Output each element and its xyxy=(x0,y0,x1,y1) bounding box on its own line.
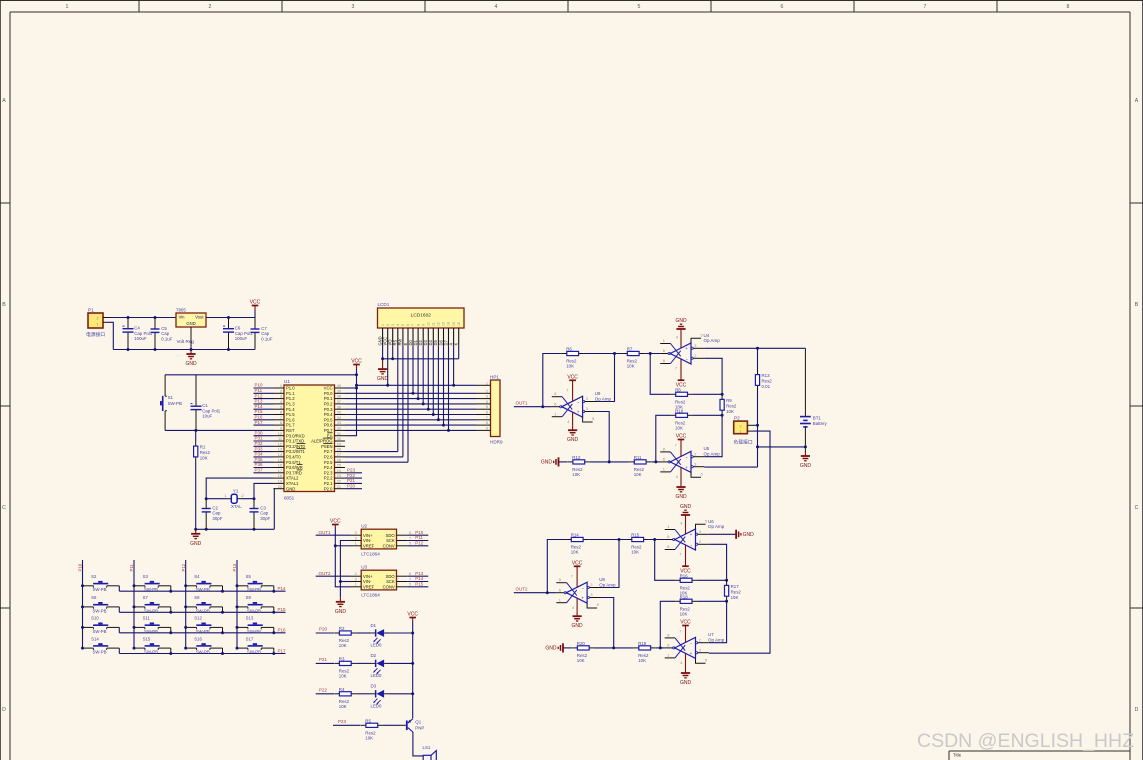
svg-text:Op Amp: Op Amp xyxy=(595,396,612,401)
net label P14 xyxy=(278,586,287,591)
junction xyxy=(756,445,759,448)
svg-text:10K: 10K xyxy=(572,472,580,477)
svg-text:5: 5 xyxy=(701,471,703,476)
svg-text:+: + xyxy=(690,651,693,656)
svg-text:SW-PB: SW-PB xyxy=(144,629,158,634)
svg-text:VCC: VCC xyxy=(250,300,261,306)
svg-text:SW-PB: SW-PB xyxy=(144,587,158,592)
wire xyxy=(383,724,400,726)
wire LCD pin 8 xyxy=(417,345,419,398)
wire xyxy=(600,598,613,648)
wire RS xyxy=(345,451,398,453)
net label P22 xyxy=(347,473,356,478)
svg-text:38: 38 xyxy=(337,395,341,399)
svg-text:LCD1602: LCD1602 xyxy=(411,313,432,319)
ground xyxy=(736,530,754,539)
wire VIN- xyxy=(340,541,350,598)
svg-text:8: 8 xyxy=(667,544,669,549)
svg-text:10K: 10K xyxy=(726,409,734,414)
svg-text:5: 5 xyxy=(597,602,599,607)
svg-text:R1: R1 xyxy=(200,445,206,450)
wire xyxy=(514,406,552,408)
svg-text:P33: P33 xyxy=(255,446,264,451)
svg-text:10uF: 10uF xyxy=(202,414,212,419)
svg-text:SW-PB: SW-PB xyxy=(144,608,158,613)
wire VCC row xyxy=(357,384,477,386)
svg-text:SW-PB: SW-PB xyxy=(93,608,107,613)
ground xyxy=(335,597,347,615)
svg-text:S3: S3 xyxy=(143,574,149,579)
svg-text:8: 8 xyxy=(280,421,282,425)
wire LCD pin 14 xyxy=(448,345,450,430)
wire net P30 xyxy=(254,435,274,437)
svg-text:6: 6 xyxy=(781,4,784,10)
svg-text:S9: S9 xyxy=(246,595,252,600)
power port VCC xyxy=(250,300,261,318)
wire xyxy=(649,539,665,541)
svg-text:P1.1: P1.1 xyxy=(286,391,295,396)
svg-text:P11: P11 xyxy=(129,564,134,572)
svg-text:BT1: BT1 xyxy=(813,416,822,421)
svg-text:SW-PB: SW-PB xyxy=(93,587,107,592)
svg-text:3: 3 xyxy=(486,395,488,399)
wire xyxy=(753,424,758,426)
svg-text:S11: S11 xyxy=(143,616,151,621)
svg-text:-: - xyxy=(582,586,584,592)
svg-text:OUT2: OUT2 xyxy=(319,571,331,576)
junction xyxy=(334,544,337,547)
svg-text:13: 13 xyxy=(442,322,446,326)
wire LCD pin 16 xyxy=(458,345,460,359)
svg-text:P22: P22 xyxy=(347,473,356,478)
svg-text:负载接口: 负载接口 xyxy=(734,439,753,446)
svg-text:-: - xyxy=(686,455,688,461)
svg-text:1: 1 xyxy=(667,653,669,658)
svg-text:7: 7 xyxy=(411,324,415,326)
svg-text:-: - xyxy=(690,542,692,548)
svg-text:LED0: LED0 xyxy=(371,643,383,648)
svg-text:23: 23 xyxy=(337,474,341,478)
svg-text:3: 3 xyxy=(694,343,696,348)
svg-text:VCC: VCC xyxy=(407,612,418,618)
wire xyxy=(709,431,770,653)
resistor R1 xyxy=(194,430,211,529)
MCU U1 8051 xyxy=(274,379,346,500)
svg-text:Op Amp: Op Amp xyxy=(704,452,721,457)
svg-text:5: 5 xyxy=(280,405,282,409)
svg-text:1: 1 xyxy=(280,384,282,388)
svg-text:P3.4/T0: P3.4/T0 xyxy=(286,455,301,460)
svg-text:P36: P36 xyxy=(255,462,264,467)
svg-text:SW-PB: SW-PB xyxy=(196,608,210,613)
svg-text:HDR9: HDR9 xyxy=(490,439,503,444)
junction xyxy=(659,646,662,649)
wire xyxy=(196,528,275,530)
junction xyxy=(546,591,549,594)
svg-text:34: 34 xyxy=(337,416,341,420)
DAC U3 LTC1864 xyxy=(351,565,429,598)
wire xyxy=(316,632,334,634)
resistor R20 xyxy=(572,641,594,663)
svg-text:10K: 10K xyxy=(627,364,635,369)
svg-text:30: 30 xyxy=(337,437,341,441)
svg-text:P17: P17 xyxy=(278,648,287,653)
wire P0.7 xyxy=(345,429,476,431)
wire LCD pin 2 xyxy=(387,345,389,385)
wire LCD pin 9 xyxy=(422,345,424,404)
svg-text:6: 6 xyxy=(554,401,556,406)
svg-text:10K: 10K xyxy=(339,674,347,679)
svg-text:P2.1: P2.1 xyxy=(324,481,333,486)
wire xyxy=(206,317,255,319)
svg-text:EA: EA xyxy=(327,433,333,438)
svg-text:B: B xyxy=(1135,302,1139,308)
capacitor C4 xyxy=(123,318,153,350)
svg-text:P10: P10 xyxy=(78,563,83,571)
wire xyxy=(656,647,665,649)
junction xyxy=(721,414,724,417)
net label P21 xyxy=(347,478,356,483)
svg-text:6: 6 xyxy=(667,534,669,539)
wire LCD pin 1 xyxy=(382,345,384,359)
svg-text:Vout: Vout xyxy=(195,315,204,320)
svg-text:0.1uF: 0.1uF xyxy=(161,336,173,341)
svg-text:R12: R12 xyxy=(572,455,581,460)
svg-text:SW-PB: SW-PB xyxy=(93,629,107,634)
wire xyxy=(588,539,627,541)
wire RW xyxy=(345,456,403,458)
svg-text:R11: R11 xyxy=(634,455,642,460)
op-amp U5 xyxy=(660,443,720,479)
resistor R5 xyxy=(361,718,383,740)
svg-text:LED0: LED0 xyxy=(371,703,383,708)
switch S17 xyxy=(236,636,276,655)
svg-text:S1: S1 xyxy=(168,395,174,400)
svg-text:5: 5 xyxy=(701,332,703,337)
svg-text:Res2: Res2 xyxy=(726,403,737,408)
svg-text:R8: R8 xyxy=(675,387,681,392)
svg-text:2: 2 xyxy=(355,572,357,576)
svg-text:GND: GND xyxy=(377,376,389,382)
wire xyxy=(563,647,572,649)
svg-text:VCC: VCC xyxy=(324,386,333,391)
wire xyxy=(584,353,623,355)
ground xyxy=(572,598,584,629)
ground xyxy=(675,318,687,348)
svg-text:10: 10 xyxy=(427,322,431,326)
svg-text:GND: GND xyxy=(680,504,692,510)
junction xyxy=(417,397,420,400)
svg-text:SW-PB: SW-PB xyxy=(247,629,261,634)
wire net P13 xyxy=(254,403,274,405)
svg-text:2: 2 xyxy=(386,324,390,326)
junction xyxy=(386,384,455,387)
net label P30 xyxy=(255,430,264,435)
svg-text:P20: P20 xyxy=(319,627,328,632)
junction xyxy=(721,393,724,396)
junction xyxy=(194,429,197,432)
wire xyxy=(655,540,675,581)
resistor R13 xyxy=(755,348,772,425)
connector P1 xyxy=(88,307,110,328)
svg-text:5: 5 xyxy=(592,416,594,421)
svg-text:S12: S12 xyxy=(194,616,202,621)
svg-text:R7: R7 xyxy=(627,347,633,352)
svg-text:LED0: LED0 xyxy=(371,673,383,678)
svg-text:1: 1 xyxy=(355,542,357,546)
svg-text:100uF: 100uF xyxy=(235,336,248,341)
svg-text:GND: GND xyxy=(675,494,687,500)
net label P12 xyxy=(181,563,186,571)
svg-text:P22: P22 xyxy=(319,687,328,692)
wire xyxy=(585,354,615,402)
LED D1 xyxy=(371,623,390,648)
wire net P23 xyxy=(345,472,362,474)
net label P36 xyxy=(255,462,264,467)
wire net P33 xyxy=(254,451,274,453)
op-amp U7 xyxy=(665,629,725,665)
net label P34 xyxy=(255,452,264,457)
svg-text:S6: S6 xyxy=(91,595,97,600)
wire xyxy=(356,662,371,664)
net label P32 xyxy=(255,441,264,446)
svg-text:6: 6 xyxy=(663,457,665,462)
svg-text:CSDN @ENGLISH_HHZ: CSDN @ENGLISH_HHZ xyxy=(917,730,1134,752)
svg-text:GND: GND xyxy=(743,532,755,538)
wire keypad column P10 xyxy=(82,560,84,648)
svg-text:9: 9 xyxy=(421,324,425,326)
svg-text:8051: 8051 xyxy=(284,496,295,501)
op-amp U9 xyxy=(552,388,612,424)
svg-text:32: 32 xyxy=(337,427,341,431)
svg-text:100uF: 100uF xyxy=(134,336,147,341)
svg-text:0.01: 0.01 xyxy=(762,384,771,389)
wire net P20 xyxy=(345,488,362,490)
junction xyxy=(437,418,440,421)
junction xyxy=(804,445,807,448)
svg-text:7: 7 xyxy=(280,416,282,420)
connector P2 xyxy=(734,416,753,434)
svg-text:3: 3 xyxy=(355,577,357,581)
svg-text:3: 3 xyxy=(699,529,701,534)
svg-text:7: 7 xyxy=(409,536,411,540)
svg-text:15: 15 xyxy=(452,322,456,326)
svg-text:P1.6: P1.6 xyxy=(286,417,295,422)
ground xyxy=(377,359,389,382)
wire xyxy=(316,693,334,695)
svg-text:P35: P35 xyxy=(255,457,264,462)
svg-text:7: 7 xyxy=(571,574,573,579)
svg-text:P2.3: P2.3 xyxy=(324,470,333,475)
net label P35 xyxy=(255,457,264,462)
switch S12 xyxy=(184,616,224,635)
junction xyxy=(432,413,435,416)
svg-text:SDO: SDO xyxy=(386,574,396,579)
svg-text:P16: P16 xyxy=(255,415,264,420)
wire xyxy=(590,461,629,463)
svg-text:GND: GND xyxy=(680,680,692,686)
svg-text:R3: R3 xyxy=(339,656,345,661)
svg-text:VCC: VCC xyxy=(676,434,687,440)
wire xyxy=(704,347,805,349)
svg-text:P10: P10 xyxy=(255,383,264,388)
net label P17 xyxy=(255,420,264,425)
svg-text:S5: S5 xyxy=(246,574,252,579)
svg-text:3: 3 xyxy=(694,461,696,466)
svg-text:2: 2 xyxy=(209,4,212,10)
svg-text:R14: R14 xyxy=(571,533,580,538)
wire P0.2 xyxy=(345,403,476,405)
svg-text:2: 2 xyxy=(586,396,588,401)
svg-text:VCC: VCC xyxy=(680,620,691,626)
svg-text:11: 11 xyxy=(432,322,436,326)
junction xyxy=(411,692,414,695)
svg-text:6: 6 xyxy=(663,348,665,353)
junction xyxy=(541,405,544,408)
wire net P32 xyxy=(254,445,274,447)
svg-text:12: 12 xyxy=(437,322,441,326)
svg-text:SW-PB: SW-PB xyxy=(144,650,158,655)
svg-text:S4: S4 xyxy=(194,574,200,579)
svg-text:P11: P11 xyxy=(415,535,423,540)
svg-text:13: 13 xyxy=(278,448,282,452)
svg-text:Res2: Res2 xyxy=(200,450,211,455)
svg-text:P2.6: P2.6 xyxy=(324,455,333,460)
svg-text:2: 2 xyxy=(699,637,701,642)
capacitor C5 xyxy=(151,318,173,350)
wire xyxy=(596,412,609,462)
svg-text:6: 6 xyxy=(409,572,411,576)
svg-text:U4: U4 xyxy=(704,333,710,338)
svg-text:OUT2: OUT2 xyxy=(516,586,528,591)
resistor R3 xyxy=(334,656,356,678)
svg-text:R5: R5 xyxy=(365,718,371,723)
capacitor C7 xyxy=(251,318,273,350)
resistor R2 xyxy=(334,626,356,648)
wire xyxy=(547,540,566,593)
svg-text:C: C xyxy=(1135,505,1139,511)
svg-text:1: 1 xyxy=(66,4,69,10)
svg-text:P0.7: P0.7 xyxy=(324,428,333,433)
svg-text:3: 3 xyxy=(586,406,588,411)
svg-text:P2.0: P2.0 xyxy=(324,486,333,491)
wire LCD pin 4 xyxy=(397,345,399,451)
svg-text:U1: U1 xyxy=(284,379,290,384)
svg-text:R9: R9 xyxy=(726,398,732,403)
svg-text:7805: 7805 xyxy=(176,307,186,312)
wire OUT1 xyxy=(316,534,351,536)
svg-text:VIN+: VIN+ xyxy=(363,533,373,538)
svg-text:P30: P30 xyxy=(255,430,264,435)
svg-text:P2.7: P2.7 xyxy=(324,449,333,454)
svg-text:S17: S17 xyxy=(246,636,254,641)
junction xyxy=(422,402,425,405)
wire P0.5 xyxy=(345,419,476,421)
svg-text:5: 5 xyxy=(409,542,411,546)
wire keypad row bus xyxy=(119,627,285,632)
wire keypad column P11 xyxy=(133,560,135,648)
svg-text:21: 21 xyxy=(337,485,341,489)
svg-text:VCC: VCC xyxy=(330,519,341,525)
resistor R4 xyxy=(334,687,356,709)
svg-text:14: 14 xyxy=(447,322,451,326)
svg-text:ALE/PROG: ALE/PROG xyxy=(311,439,332,444)
svg-text:P1.0: P1.0 xyxy=(286,386,295,391)
svg-text:SW-PB: SW-PB xyxy=(247,587,261,592)
junction xyxy=(725,579,728,582)
speaker LS1 xyxy=(423,745,437,760)
net label P20 xyxy=(319,627,328,632)
svg-text:P3.2/INT0: P3.2/INT0 xyxy=(286,444,306,449)
svg-text:1: 1 xyxy=(667,524,669,529)
junction xyxy=(339,580,342,583)
svg-text:SCK: SCK xyxy=(386,538,395,543)
svg-text:7: 7 xyxy=(409,577,411,581)
svg-text:5: 5 xyxy=(409,583,411,587)
svg-text:D1: D1 xyxy=(371,623,377,628)
wire LCD pin 15 xyxy=(453,345,455,385)
svg-text:U2: U2 xyxy=(361,524,367,529)
wire net P22 xyxy=(345,477,362,479)
svg-text:4: 4 xyxy=(280,400,282,404)
svg-text:8: 8 xyxy=(554,391,556,396)
wire xyxy=(709,533,736,535)
net label P14 xyxy=(255,404,264,409)
svg-text:10K: 10K xyxy=(680,612,688,617)
net label P13 xyxy=(232,563,237,571)
svg-text:P1.5: P1.5 xyxy=(286,412,295,417)
wire LCD pin 11 xyxy=(432,345,434,414)
wire net P34 xyxy=(254,456,274,458)
net label P10 xyxy=(255,383,264,388)
wire xyxy=(709,544,727,580)
switch S2 xyxy=(81,574,119,592)
power port VCC xyxy=(676,359,687,389)
svg-text:S10: S10 xyxy=(91,616,99,621)
svg-text:P3.1/TXD: P3.1/TXD xyxy=(286,439,304,444)
svg-text:P2: P2 xyxy=(734,416,740,421)
svg-text:P0.4: P0.4 xyxy=(324,412,333,417)
ground xyxy=(545,643,563,652)
net label P20 xyxy=(347,483,356,488)
svg-text:P1.4: P1.4 xyxy=(286,407,295,412)
svg-text:2: 2 xyxy=(280,389,282,393)
svg-text:OUT1: OUT1 xyxy=(516,400,528,405)
svg-text:-: - xyxy=(686,356,688,362)
wire xyxy=(697,579,727,581)
svg-text:5: 5 xyxy=(705,657,707,662)
power port VCC xyxy=(351,359,362,369)
wire xyxy=(656,415,671,462)
svg-text:P1.3: P1.3 xyxy=(286,402,295,407)
junction xyxy=(653,538,656,541)
svg-text:Volt Reg: Volt Reg xyxy=(177,339,195,344)
net label OUT1 xyxy=(516,400,528,405)
svg-text:10K: 10K xyxy=(638,658,646,663)
wire OUT2 xyxy=(316,575,351,577)
svg-text:P0.3: P0.3 xyxy=(324,407,333,412)
wire net P14 xyxy=(254,408,274,410)
resistor R19 xyxy=(634,641,656,663)
svg-text:SW-PB: SW-PB xyxy=(247,608,261,613)
power port VCC xyxy=(676,434,687,457)
wire xyxy=(559,461,568,463)
wire net P15 xyxy=(254,414,274,416)
svg-text:U5: U5 xyxy=(704,446,710,451)
svg-text:GND: GND xyxy=(335,609,347,615)
wire xyxy=(273,489,276,530)
op-amp U4 xyxy=(660,332,720,370)
